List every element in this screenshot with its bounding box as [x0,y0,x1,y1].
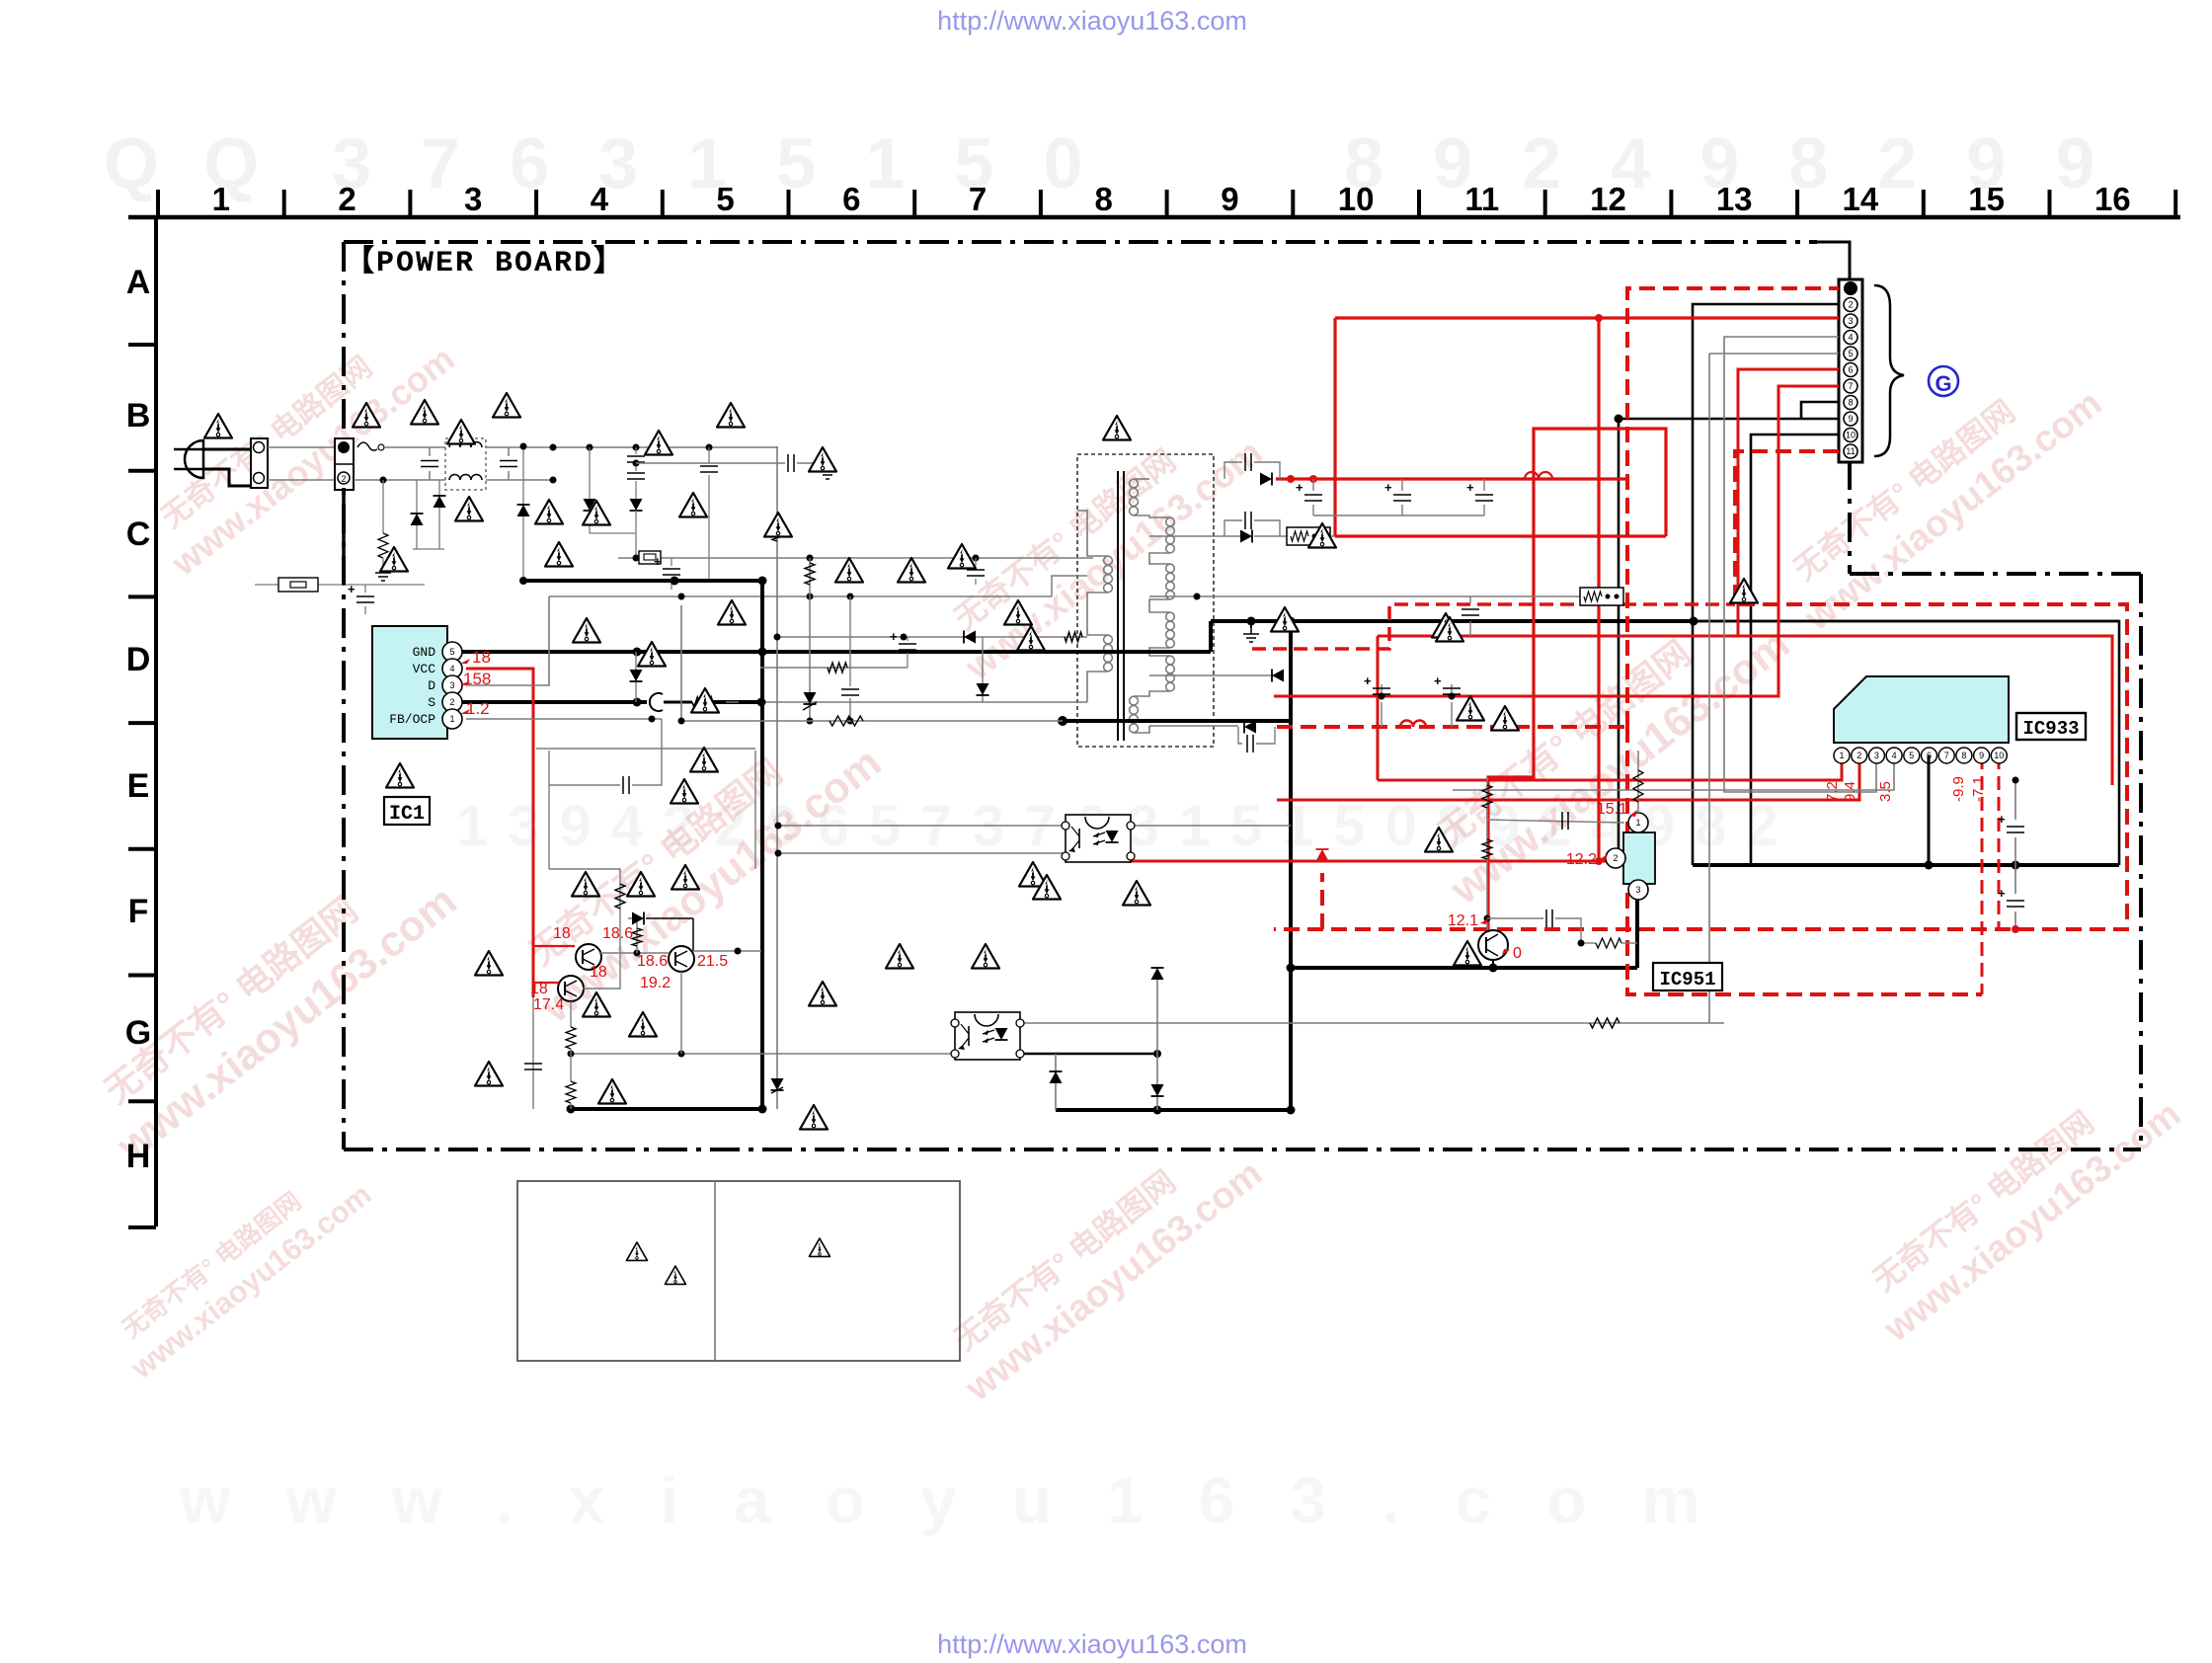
svg-text:13: 13 [1716,181,1753,217]
svg-text:12.1: 12.1 [1448,912,1478,929]
svg-text:D: D [428,678,435,693]
svg-text:2: 2 [1848,300,1853,310]
svg-text:+: + [1466,480,1474,495]
svg-text:9: 9 [1979,751,1984,760]
svg-text:10: 10 [1994,751,2004,760]
svg-text:http://www.xiaoyu163.com: http://www.xiaoyu163.com [937,6,1247,36]
svg-text:+: + [1384,480,1392,495]
svg-text:5: 5 [716,181,734,217]
svg-text:18: 18 [530,981,548,997]
svg-text:1: 1 [1839,751,1844,760]
svg-text:10: 10 [1338,181,1375,217]
svg-text:18: 18 [472,648,491,667]
svg-text:GND: GND [413,645,436,660]
svg-text:7.2: 7.2 [1824,781,1841,802]
svg-text:4: 4 [591,181,609,217]
svg-text:15.1: 15.1 [1597,801,1627,818]
svg-text:2: 2 [449,697,454,707]
svg-text:6: 6 [1848,365,1853,375]
svg-text:8: 8 [1095,181,1113,217]
svg-text:H: H [126,1138,151,1175]
svg-text:IC933: IC933 [2022,718,2079,740]
svg-text:+: + [348,582,355,596]
svg-text:18: 18 [553,925,571,942]
svg-text:G: G [1935,371,1951,396]
svg-text:-9.9: -9.9 [1950,776,1967,802]
svg-text:17.4: 17.4 [533,996,564,1013]
svg-text:7: 7 [1848,381,1853,391]
svg-text:2: 2 [1613,853,1618,863]
svg-text:G: G [125,1014,151,1052]
svg-text:15: 15 [1968,181,2005,217]
svg-text:3: 3 [1635,885,1640,895]
svg-text:6: 6 [842,181,860,217]
svg-text:8: 8 [1848,398,1853,408]
svg-text:1: 1 [449,714,454,724]
svg-text:3: 3 [449,680,454,690]
svg-text:14: 14 [1843,181,1879,217]
svg-text:2: 2 [1856,751,1861,760]
svg-text:2: 2 [341,474,346,484]
svg-text:A: A [126,264,151,301]
svg-text:QQ: QQ [104,124,303,203]
svg-text:+: + [1364,673,1372,688]
svg-text:IC951: IC951 [1659,969,1715,990]
svg-text:11: 11 [1464,181,1499,217]
svg-text:S: S [428,695,435,710]
svg-text:3: 3 [1848,316,1853,326]
svg-text:+: + [1998,812,2006,827]
svg-text:http://www.xiaoyu163.com: http://www.xiaoyu163.com [937,1629,1247,1659]
svg-text:0: 0 [1513,945,1522,962]
svg-text:5: 5 [449,647,454,657]
svg-text:VCC: VCC [413,662,436,676]
svg-text:3: 3 [464,181,482,217]
svg-text:+: + [1434,673,1442,688]
svg-text:www.xiaoyu163.com: www.xiaoyu163.com [179,1464,1755,1537]
svg-text:158: 158 [463,670,491,688]
svg-text:FB/OCP: FB/OCP [389,712,435,727]
svg-text:12.2: 12.2 [1566,851,1597,868]
svg-text:5: 5 [1848,349,1853,358]
svg-text:-7.1: -7.1 [1970,776,1987,802]
svg-text:3.5: 3.5 [1877,781,1894,802]
svg-text:1: 1 [212,181,230,217]
svg-text:11: 11 [1846,446,1855,456]
svg-text:2: 2 [338,181,355,217]
svg-text:+: + [890,629,898,644]
svg-text:【POWER BOARD】: 【POWER BOARD】 [345,245,625,280]
svg-text:18: 18 [590,964,607,981]
svg-text:18.6: 18.6 [602,925,633,942]
svg-text:10: 10 [1846,431,1856,440]
svg-text:F: F [128,893,149,930]
svg-text:8: 8 [1961,751,1966,760]
svg-text:9: 9 [1221,181,1238,217]
svg-text:19.2: 19.2 [640,975,671,991]
svg-text:1: 1 [1635,818,1640,828]
svg-text:9.4: 9.4 [1842,781,1858,802]
svg-text:+: + [1296,480,1303,495]
svg-text:+: + [654,554,662,569]
svg-text:4: 4 [449,664,454,673]
svg-text:+: + [1998,886,2006,901]
svg-text:D: D [126,641,151,678]
svg-text:3: 3 [1874,751,1879,760]
svg-text:9: 9 [1848,414,1853,424]
svg-text:C: C [126,515,151,553]
svg-text:1.2: 1.2 [466,699,490,718]
svg-text:16: 16 [2094,181,2131,217]
svg-text:4: 4 [1848,333,1853,343]
svg-text:21.5: 21.5 [697,953,728,970]
svg-text:18.6: 18.6 [637,953,668,970]
svg-text:12: 12 [1590,181,1626,217]
svg-text:7: 7 [1944,751,1949,760]
svg-text:E: E [127,767,150,805]
svg-text:7: 7 [969,181,987,217]
svg-text:5: 5 [1909,751,1914,760]
svg-text:B: B [126,397,151,435]
svg-text:4: 4 [1892,751,1897,760]
svg-text:IC1: IC1 [389,803,425,826]
